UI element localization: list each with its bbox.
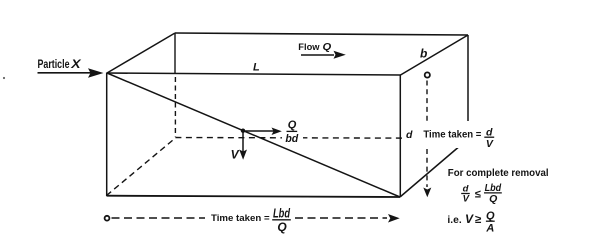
label Q/bd fraction: [285, 119, 298, 145]
svg-text:Q: Q: [486, 210, 495, 222]
svg-text:V: V: [486, 138, 494, 150]
svg-text:Q: Q: [277, 220, 287, 234]
tank top-left oblique edge: [107, 33, 175, 73]
svg-text:Q: Q: [489, 193, 497, 205]
bottom dashed line right part: [295, 217, 387, 219]
flow arrow: [301, 51, 346, 59]
depth dashed drop line upper part: [426, 81, 428, 123]
tank front top edge: [107, 73, 401, 75]
depth arrowhead down: [423, 188, 431, 198]
tank top-right oblique edge: [401, 35, 469, 75]
tank back top edge: [175, 33, 468, 35]
svg-text:≤: ≤: [475, 189, 481, 201]
svg-text:For complete removal: For complete removal: [448, 168, 549, 179]
label Time taken = d/V: [423, 127, 494, 150]
tank front left edge: [106, 73, 108, 197]
tank bottom-right oblique edge: [400, 139, 468, 197]
tank back right edge: [467, 35, 469, 139]
svg-text:i.e.: i.e.: [447, 215, 461, 226]
label Particle X: [38, 57, 82, 71]
white patch behind Time taken = d/V text: [403, 121, 500, 148]
inequality d/V <= Lbd/Q: [461, 182, 502, 205]
bottom length reference circle marker: [105, 216, 110, 221]
svg-text:A: A: [485, 222, 494, 234]
particle settling velocity arrow V: [239, 132, 247, 160]
svg-text:X: X: [70, 57, 82, 71]
particle horizontal velocity arrow: [243, 128, 282, 136]
svg-text:V: V: [465, 212, 474, 226]
label Time taken = Lbd/Q: [211, 205, 291, 233]
particle trajectory diagonal: [107, 73, 400, 197]
svg-text:Q: Q: [323, 42, 332, 53]
tank front right edge: [399, 75, 401, 197]
svg-text:b: b: [420, 47, 427, 61]
stray speck left margin: [3, 77, 5, 79]
svg-text:V: V: [231, 147, 240, 161]
svg-text:Q: Q: [288, 119, 297, 131]
svg-text:V: V: [463, 194, 470, 205]
label Flow Q: [298, 41, 331, 53]
svg-text:bd: bd: [285, 133, 298, 145]
conclusion i.e. V >= Q/A: [447, 210, 495, 234]
depth reference circle marker: [425, 72, 430, 77]
bottom arrowhead right: [388, 214, 400, 223]
tank back bottom hidden edge: [175, 137, 468, 140]
svg-text:Time taken =: Time taken =: [211, 213, 270, 223]
particle dot on trajectory: [241, 129, 245, 133]
svg-text:Lbd: Lbd: [273, 205, 291, 220]
tank back-left edge hidden dashed part: [174, 77, 176, 137]
white patch behind Q/bd label: [282, 113, 303, 144]
tank bottom-left hidden oblique edge: [107, 138, 176, 196]
bottom dashed line left part: [112, 217, 206, 219]
depth dashed drop line lower part: [426, 149, 428, 187]
svg-text:L: L: [253, 62, 260, 74]
svg-text:d: d: [406, 129, 413, 141]
svg-text:Particle: Particle: [38, 57, 70, 71]
tank back-left edge upper solid part: [174, 33, 176, 74]
svg-text:≥: ≥: [475, 214, 482, 226]
tank front bottom edge: [107, 196, 401, 197]
svg-text:Time taken =: Time taken =: [423, 130, 481, 141]
particle inlet arrow: [38, 68, 104, 77]
svg-text:Flow: Flow: [298, 41, 320, 52]
